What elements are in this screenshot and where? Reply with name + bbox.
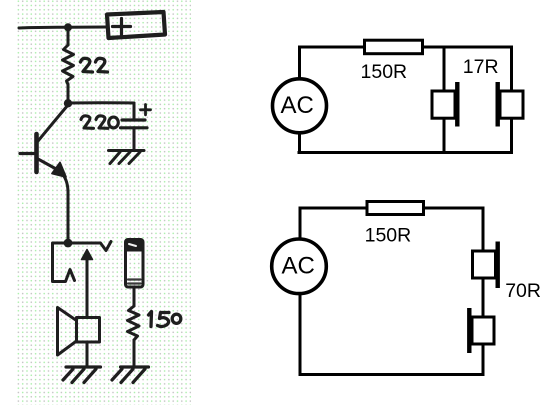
wire: top rail right segment — [424, 207, 485, 210]
earphone capsule (crystal earpiece) — [126, 240, 144, 288]
wire: top rail right segment — [423, 46, 514, 49]
ground (below resistor 150) — [112, 367, 149, 383]
wire: down to earphone 3 — [482, 207, 485, 252]
ground (below capacitor) — [109, 151, 145, 164]
wire: right corner down to earphone 2 — [511, 46, 513, 92]
AC source V2 — [272, 239, 327, 294]
svg-text:17R: 17R — [463, 56, 499, 78]
wire: earphone 3 to earphone 4 — [482, 278, 485, 317]
svg-text:150R: 150R — [361, 61, 408, 83]
wire: AC bottom to rail — [298, 133, 301, 153]
wire: junction down to resistor 22 — [67, 27, 70, 45]
svg-text:AC: AC — [281, 92, 314, 119]
resistor 150R — [365, 40, 423, 54]
capacitor C1 220uF plates — [122, 118, 145, 121]
label 22 — [81, 58, 108, 72]
wire: AC bottom to rail — [299, 294, 302, 375]
node C: jack junction — [64, 239, 73, 248]
svg-text:150R: 150R — [365, 225, 412, 247]
earphone E2 diaphragm bar — [496, 82, 500, 127]
wire: top rail left segment — [298, 46, 365, 49]
wire: speaker to ground — [86, 342, 89, 366]
transistor Q1 emitter with arrow — [38, 159, 58, 170]
speaker LS1 body — [77, 318, 100, 343]
wire: emitter to jack junction — [62, 174, 68, 243]
jack switch contact (bar to v) — [68, 242, 111, 251]
battery + label — [113, 19, 131, 35]
scanned graph-paper background of hand-drawn schematic — [16, 0, 191, 405]
earphone E3 body — [473, 251, 496, 278]
wire: bottom rail — [299, 373, 485, 376]
wire: top rail from left edge to battery — [19, 27, 107, 28]
jack socket J1 (frame with spring contact) — [53, 243, 75, 282]
wire: earphone 2 to bottom rail — [510, 118, 513, 154]
earphone E4 body — [472, 317, 494, 344]
node B: junction resistor22 / cap 220 / transistor collector — [64, 99, 72, 107]
svg-text:70R: 70R — [505, 280, 541, 302]
wire: collector from node B down to transistor — [38, 105, 68, 141]
AC source V1 — [273, 79, 327, 133]
wire: cap top lead — [133, 103, 136, 119]
ground (below speaker) — [63, 367, 101, 383]
earphone E1 body — [432, 91, 455, 118]
earphone E3 diaphragm bar — [496, 242, 500, 289]
resistor 22 (zigzag) — [63, 45, 74, 85]
wire: base lead — [20, 152, 35, 155]
wire: resistor 22 to junction — [67, 85, 70, 104]
wire: AC top to rail — [298, 47, 301, 79]
jack plug tip arrow — [82, 250, 93, 260]
wire: top rail left segment — [299, 207, 368, 210]
wire: junction to capacitor — [68, 101, 134, 104]
wire: jack to speaker — [86, 258, 89, 317]
earphone E4 diaphragm bar — [467, 308, 471, 353]
wire: capsule to resistor 150 — [133, 287, 136, 306]
battery B1 (box with +) — [107, 12, 165, 38]
wire: cap to ground — [133, 128, 136, 150]
speaker LS1 cone — [58, 308, 77, 356]
label 150 — [149, 312, 181, 327]
label 220 — [81, 116, 118, 128]
wire: bottom rail — [298, 151, 514, 154]
resistor 150 (zigzag) — [128, 306, 140, 340]
wire: branch down to earphone 1 — [443, 47, 446, 91]
wire: resistor 150 to ground — [133, 340, 136, 366]
node A: junction top rail / resistor 22 — [64, 23, 72, 31]
resistor 150R (bottom circuit) — [367, 202, 424, 215]
+ polarity mark of capacitor — [141, 105, 151, 115]
earphone E1 diaphragm bar — [455, 82, 459, 127]
svg-text:AC: AC — [282, 252, 315, 279]
wire: AC top to rail — [299, 208, 302, 239]
transistor Q1 base bar — [34, 134, 39, 172]
earphone E2 body — [500, 91, 523, 118]
wire: earphone 1 to bottom rail — [443, 118, 446, 152]
wire: earphone 4 to bottom rail — [482, 344, 485, 376]
